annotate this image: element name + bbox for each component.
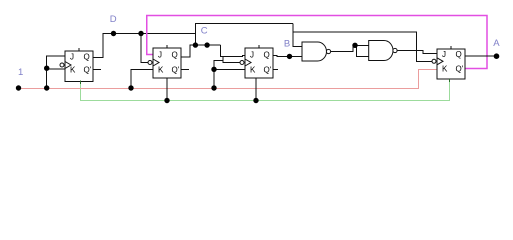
node B attach [287,54,292,59]
node green FF3 [253,98,258,103]
node K3 junction [211,67,216,72]
flip-flop U3 JK [240,45,273,78]
wire magenta Q'4 feedback [147,16,487,69]
node NAND2 tie [352,43,357,48]
svg-text:Q': Q' [84,66,92,75]
wire B C net to NAND1 top and clk4 [293,24,432,62]
svg-text:J: J [70,53,74,62]
wire red constant-1 bus [19,70,438,89]
wire NAND2 out to J4 [397,51,437,54]
svg-text:D: D [110,14,117,25]
svg-text:K: K [70,66,76,75]
svg-text:B: B [284,38,290,49]
svg-text:Q': Q' [172,66,180,75]
wire NAND1 out to NAND2 inputs [331,45,369,56]
svg-text:Q: Q [172,51,178,60]
nand gate G2 [369,41,397,61]
node red junction FF3 [211,85,216,90]
wire Q3 to NAND1 [273,56,302,70]
node clk2 branch [138,31,143,36]
node constant output [16,85,21,90]
svg-text:Q: Q [456,50,462,59]
svg-text:Q: Q [264,51,270,60]
node K2 red junction [128,85,133,90]
wire FF2 clear drop [166,78,168,101]
svg-text:C: C [201,25,208,36]
node green FF2 [164,98,169,103]
svg-text:A: A [493,38,500,49]
wire FF3 clear drop [255,78,257,101]
wire Q1 to D-line [93,34,195,70]
svg-text:J: J [442,50,446,59]
node D attach [111,31,116,36]
wire J3 K3 subtree [214,45,245,88]
flip-flop U4 JK [432,46,465,82]
svg-text:1: 1 [18,67,23,78]
svg-text:J: J [250,51,254,60]
node junction red to FF1 [44,85,49,90]
node mid bus [204,42,209,47]
wire Q2 riser and mid bus [181,24,293,70]
svg-text:K: K [442,65,448,74]
svg-text:K: K [158,66,164,75]
svg-text:Q': Q' [264,66,272,75]
node C riser junction [193,42,198,47]
wire black vert feeding FF1 J clk K [47,56,65,88]
wire clk2 feed [141,34,148,63]
flip-flop U1 JK [60,48,93,84]
wire K2 feed from red [131,70,153,89]
nand gate G1 [302,42,331,61]
svg-text:Q': Q' [456,65,464,74]
svg-text:Q: Q [84,53,90,62]
node junction FF1 clk [44,66,49,71]
wire Q4 to A [465,55,497,57]
flip-flop U2 JK [148,45,181,78]
wire green clear bus [81,82,450,101]
svg-text:J: J [158,51,162,60]
svg-text:K: K [250,66,256,75]
node A attach [494,53,500,59]
